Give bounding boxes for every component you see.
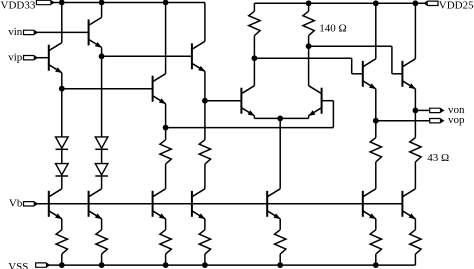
svg-text:VSS: VSS	[8, 261, 28, 269]
svg-text:140 Ω: 140 Ω	[319, 23, 346, 35]
svg-text:vip: vip	[8, 51, 23, 63]
svg-text:VDD33: VDD33	[1, 0, 36, 12]
svg-text:VDD25: VDD25	[439, 0, 474, 12]
svg-text:vin: vin	[8, 26, 23, 38]
svg-text:vop: vop	[448, 114, 465, 126]
svg-text:Vb: Vb	[9, 197, 23, 209]
svg-text:43 Ω: 43 Ω	[427, 152, 449, 164]
